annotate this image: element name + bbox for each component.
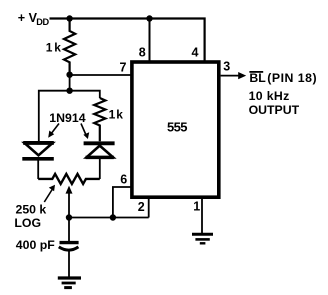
- wire arrow from 1N914 label to D1: [51, 124, 60, 135]
- resistor R2 1k vertical: [94, 98, 105, 141]
- svg-text:LOG: LOG: [14, 216, 41, 230]
- svg-text:DD: DD: [36, 17, 49, 27]
- wire arrow from 1N914 label to D2: [81, 124, 86, 136]
- wire pin 2 vertical: [148, 198, 150, 218]
- svg-text:3: 3: [223, 60, 230, 74]
- ground at pin 1: [192, 233, 213, 236]
- node junction dot at R1 top: [66, 15, 72, 21]
- wire wiper node to C1: [68, 218, 70, 242]
- svg-text:2: 2: [138, 200, 145, 214]
- svg-text:BL: BL: [249, 71, 266, 85]
- potentiometer R3 250k body: [38, 174, 100, 184]
- svg-text:(PIN 18): (PIN 18): [267, 71, 317, 85]
- svg-text:250 k: 250 k: [16, 202, 47, 216]
- svg-text:1k: 1k: [46, 41, 61, 55]
- capacitor C1 400pF: [60, 241, 79, 244]
- node junction dot diode node: [66, 88, 72, 94]
- svg-text:1N914: 1N914: [49, 111, 85, 125]
- wire pin 6 branch: [113, 187, 131, 218]
- wire right branch to R2: [70, 91, 100, 98]
- svg-text:7: 7: [120, 61, 127, 75]
- node junction dot wiper node: [66, 214, 72, 220]
- svg-text:555: 555: [167, 120, 187, 135]
- wire arrow from 250k label to pot: [44, 189, 53, 203]
- wire pin 8 vertical: [149, 19, 151, 62]
- node junction dot at pin 8 drop: [146, 15, 152, 21]
- wire C1 to ground: [68, 251, 70, 278]
- wire D2 anode to pot right: [99, 157, 101, 179]
- svg-text:1: 1: [193, 199, 200, 213]
- svg-text:8: 8: [139, 46, 146, 60]
- resistor R1 1k vertical: [64, 19, 75, 75]
- wire left branch to diode D1 anode: [39, 91, 70, 142]
- diode D2 1N914 cathode up: [84, 141, 115, 145]
- node junction dot pin 7 node: [66, 72, 72, 78]
- svg-text:1k: 1k: [109, 108, 124, 122]
- svg-text:10 kHz: 10 kHz: [249, 89, 290, 103]
- diode D1 1N914 cathode down: [25, 143, 53, 155]
- wire pin 3 output with arrow: [221, 75, 239, 77]
- op-amp U1 555 IC body: [132, 62, 219, 197]
- svg-text:6: 6: [120, 172, 127, 186]
- wire pot wiper arrow: [68, 192, 70, 218]
- svg-text:OUTPUT: OUTPUT: [249, 103, 300, 117]
- wire VDD rail with pin-4 drop: [50, 19, 205, 61]
- wire pin 7 horizontal: [70, 74, 131, 76]
- svg-text:+ V: + V: [18, 11, 38, 25]
- ground below C1: [58, 276, 81, 279]
- svg-text:400 pF: 400 pF: [16, 238, 55, 252]
- wire D1 cathode to pot left: [37, 159, 39, 179]
- node junction dot pin 6 branch: [110, 214, 116, 220]
- svg-text:4: 4: [192, 46, 199, 60]
- wire bottom horizontal wiper to pin 2: [69, 217, 149, 219]
- wire vertical between pin7 node and diode node: [69, 75, 71, 91]
- wire pin 1 to ground: [201, 198, 203, 233]
